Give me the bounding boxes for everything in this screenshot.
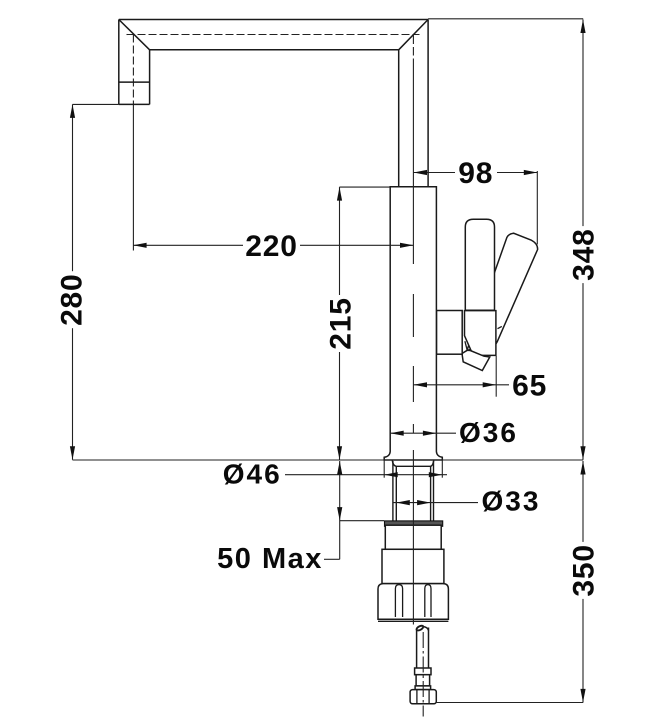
svg-text:220: 220	[245, 230, 297, 263]
svg-text:Ø46: Ø46	[223, 459, 282, 490]
svg-text:50 Max: 50 Max	[217, 543, 323, 575]
svg-text:350: 350	[567, 544, 600, 596]
svg-text:215: 215	[324, 297, 357, 349]
svg-text:Ø36: Ø36	[459, 417, 518, 448]
svg-text:Ø33: Ø33	[482, 486, 541, 517]
svg-text:98: 98	[458, 157, 493, 190]
svg-text:348: 348	[567, 228, 600, 280]
svg-text:280: 280	[56, 273, 89, 325]
svg-text:65: 65	[512, 370, 547, 403]
